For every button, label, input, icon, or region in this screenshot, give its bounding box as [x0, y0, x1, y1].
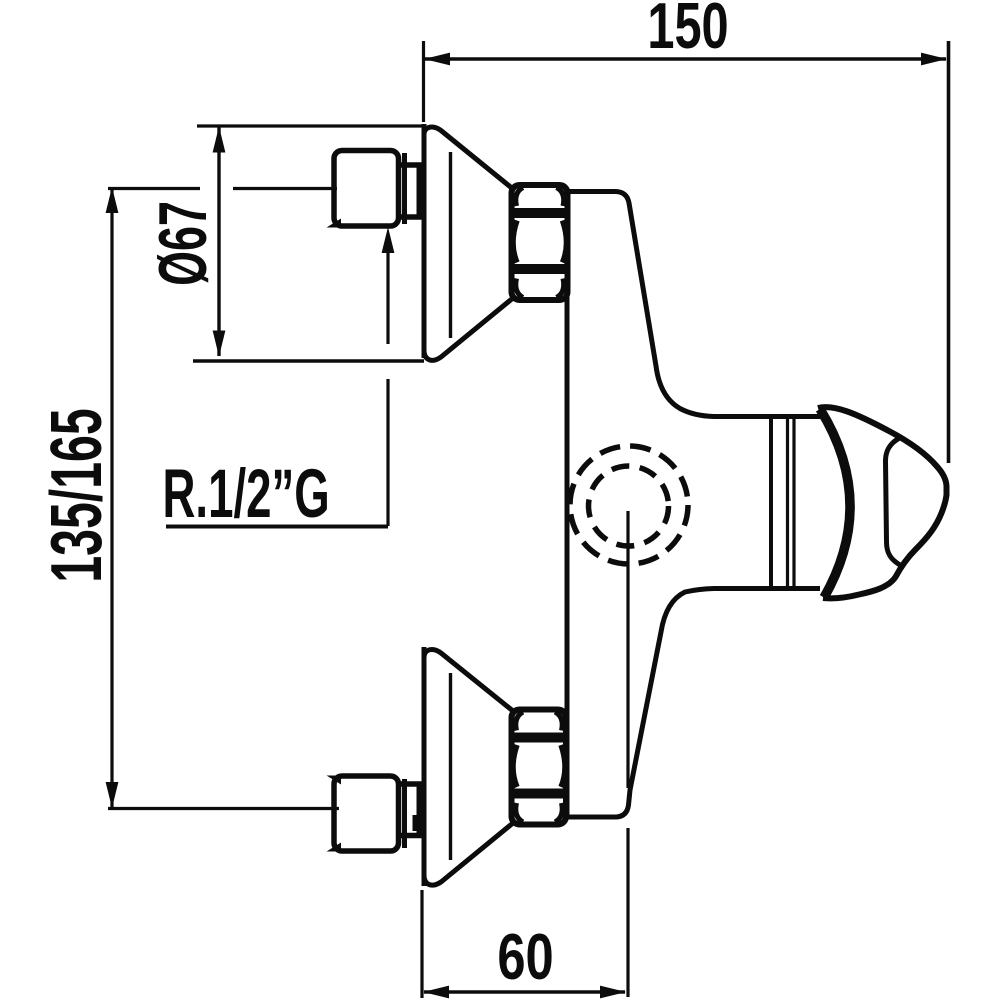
top escutcheon inner line [449, 152, 452, 338]
bottom escutcheon upper cone edge [424, 650, 513, 711]
faucet body lower outline: boss bottom edge, shoulder slope, bottom shoulder line [565, 589, 820, 818]
label R.1/2"G underline [166, 525, 388, 529]
dimension 135/165 top extension line (broken at O67 dim line) [108, 187, 337, 190]
bottom escutcheon wall line [422, 647, 427, 886]
bottom fitting face plate line [402, 779, 407, 848]
faucet body upper outline: boss top edge, shoulder slope, top shoulder line [565, 192, 820, 417]
dimension 135/165 line [110, 188, 113, 807]
top escutcheon wall line [422, 124, 427, 358]
dimension 60 line [424, 990, 625, 994]
dimension 150 right extension line [947, 41, 951, 463]
dimension O67 text [146, 201, 222, 286]
bottom fitting flange vertical [417, 784, 422, 836]
dimension 150 left arrow [424, 53, 450, 66]
hidden cartridge outer dashed circle [570, 446, 688, 564]
bottom fitting flange lower bar [400, 833, 422, 839]
top square fitting lower-left ear [327, 219, 342, 228]
bottom wall square fitting [334, 776, 399, 851]
top wall square fitting [334, 151, 399, 227]
centerline below cartridge [626, 511, 629, 788]
svg-text:150: 150 [647, 0, 728, 63]
label R.1/2"G leader arrow [382, 227, 395, 253]
top escutcheon lower cone edge [424, 298, 513, 360]
dimension 60 left extension line [420, 890, 423, 998]
handle knob outer silhouette [818, 407, 947, 598]
bottom square fitting upper-left ear [327, 776, 342, 785]
dimension O67 bottom arrow [213, 331, 226, 357]
dimension 150 left extension line [422, 41, 425, 122]
top escutcheon upper cone edge [424, 127, 513, 189]
dimension 135/165 bottom extension line [108, 807, 339, 810]
dimension 150 line [425, 57, 946, 61]
bottom fitting flange upper bar [400, 781, 422, 787]
dimension O67 top extension line [197, 124, 424, 127]
svg-text:R.1/2”G: R.1/2”G [163, 456, 330, 533]
dimension 135/165 text [36, 408, 116, 582]
handle knob inner face contour [886, 438, 902, 566]
top union nut [512, 185, 568, 300]
dimension 150 text [647, 0, 728, 63]
dimension 135/165 bottom arrow [106, 782, 119, 808]
dimension 150 right arrow [921, 53, 947, 66]
bottom escutcheon lower cone edge [424, 823, 513, 885]
top fitting flange vertical [417, 165, 422, 217]
svg-text:135/165: 135/165 [36, 408, 116, 582]
handle dome base arc [820, 409, 850, 598]
dimension 60 right extension line [626, 828, 629, 997]
handle collar ring lines [788, 418, 795, 588]
bottom square fitting lower-left ear [327, 843, 342, 852]
label R.1/2"G leader shaft (broken at O67 ext line) [386, 252, 389, 526]
hidden cartridge inner dashed circle [589, 466, 669, 546]
bottom escutcheon inner line [449, 673, 452, 860]
dimension O67 top arrow [213, 127, 226, 153]
dimension 135/165 top arrow [106, 187, 119, 213]
faucet body left edge [565, 189, 570, 819]
svg-text:60: 60 [497, 921, 553, 993]
top fitting flange upper bar [400, 162, 422, 168]
svg-text:Ø67: Ø67 [146, 201, 222, 286]
faucet body right face line [769, 418, 773, 588]
top fitting flange lower bar [400, 214, 422, 220]
dimension 60 text [497, 921, 553, 993]
dimension 60 left arrow [423, 986, 449, 999]
dimension O67 bottom extension line [193, 359, 424, 362]
dimension 60 right arrow [600, 986, 626, 999]
top fitting face plate line [402, 153, 407, 224]
dimension O67 line [217, 127, 220, 356]
bottom fitting flange blob [413, 815, 422, 831]
bottom union nut [512, 710, 567, 825]
label R.1/2"G text [163, 456, 330, 533]
